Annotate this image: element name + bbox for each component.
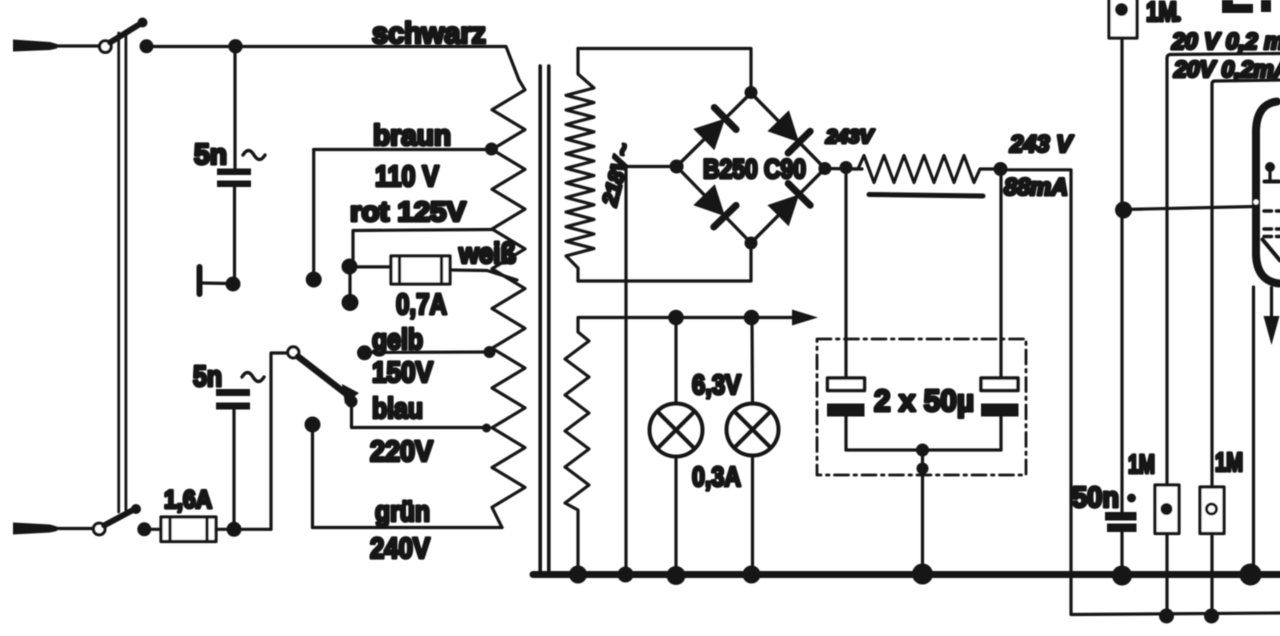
- tube cathode lead to ground: [1252, 287, 1255, 571]
- wire gruen: [313, 526, 503, 529]
- contact 125V rot: [342, 259, 359, 312]
- svg-text:grün: grün: [375, 496, 430, 528]
- svg-text:gelb: gelb: [372, 324, 423, 356]
- label AC tilde: [243, 151, 265, 160]
- terminal: mains plug pin bottom: [13, 523, 57, 535]
- wire: [55, 527, 93, 530]
- junction dot: [228, 39, 242, 53]
- junction dot: [1159, 609, 1174, 624]
- svg-text:243 V: 243 V: [1009, 131, 1074, 158]
- contact 240V gruen: [305, 417, 321, 528]
- wire 20V line B: [1212, 80, 1280, 487]
- capacitor C4 50u: [981, 176, 1019, 450]
- svg-text:1,6A: 1,6A: [164, 486, 212, 514]
- bus junction dot: [569, 566, 587, 584]
- wire HV top to bridge: [578, 49, 751, 89]
- bus junction dot: [743, 566, 761, 584]
- svg-text:1M: 1M: [1128, 449, 1155, 479]
- wire rot tap: [353, 230, 494, 263]
- bus junction dot: [667, 566, 686, 585]
- tube lead with arrow down: [1264, 288, 1280, 346]
- diode D4: [767, 184, 810, 227]
- label AC tilde: [242, 373, 264, 382]
- svg-text:5n: 5n: [193, 361, 222, 393]
- switch linkage (ganged): [119, 31, 126, 512]
- wire 243V rail down and along bottom: [1000, 170, 1280, 615]
- resistor R1 smoothing: [846, 156, 1000, 183]
- svg-text:schwarz: schwarz: [372, 17, 486, 50]
- wire to tube grid: [1123, 207, 1255, 210]
- node DC plus: [818, 162, 831, 175]
- resistor R3 1M: [1155, 485, 1179, 534]
- junction dot: [917, 463, 929, 475]
- label 1M: [1146, 0, 1182, 27]
- ground bus: [533, 571, 1280, 578]
- junction dot: [226, 277, 241, 292]
- junction dot small: [1127, 494, 1136, 503]
- wire braun: [314, 148, 491, 151]
- svg-text:243V: 243V: [825, 127, 874, 148]
- tube cathode diagonal: [1263, 240, 1280, 261]
- wire caps common to ground: [846, 450, 1001, 572]
- wire HV bottom to bridge: [578, 247, 751, 281]
- svg-text:220V: 220V: [370, 436, 434, 468]
- junction dot: [227, 522, 242, 537]
- tube grid dashes: [1264, 211, 1280, 237]
- switch S1a mains switch upper pole: [100, 18, 148, 53]
- terminal: mains plug pin top: [13, 40, 57, 52]
- bus junction dot: [912, 564, 933, 585]
- resistor R4 1M: [1200, 487, 1224, 534]
- transformer T1 HV secondary winding 218V: [566, 49, 594, 282]
- switch S1b mains switch lower pole: [93, 504, 141, 535]
- svg-text:1M: 1M: [1146, 0, 1177, 27]
- capacitor C1 5n upper mains filter: [217, 47, 251, 285]
- enclosure 2x50u dash-dot box: [817, 339, 1026, 475]
- wire 20V line A: [1167, 54, 1280, 486]
- node DC minus: [670, 160, 684, 174]
- node AC bottom: [745, 237, 758, 250]
- svg-text:6,3V: 6,3V: [692, 369, 741, 400]
- wire selector riser: [271, 353, 288, 529]
- diode D2: [767, 110, 810, 153]
- junction dot: [140, 39, 154, 53]
- svg-text:0,7A: 0,7A: [396, 289, 447, 321]
- svg-text:0,3A: 0,3A: [692, 461, 741, 492]
- envelope pin gap: [1253, 199, 1258, 204]
- svg-text:2 x 50µ: 2 x 50µ: [874, 383, 974, 418]
- bar under resistor: [869, 195, 983, 197]
- lamp La1 pilot light: [650, 318, 703, 574]
- contact 150V gelb and wire: [357, 345, 496, 360]
- junction dot: [840, 161, 853, 174]
- transformer T1 primary winding: [492, 80, 525, 528]
- diode D3: [693, 184, 736, 227]
- bus junction dot: [1112, 566, 1132, 586]
- chassis tab: [200, 267, 230, 294]
- wire bridge plus output: [825, 167, 862, 171]
- tube anode connection: [1265, 162, 1280, 182]
- bridge rectifier B250 C90: [677, 93, 825, 243]
- junction dot: [137, 522, 151, 536]
- node AC top: [745, 86, 758, 99]
- svg-text:braun: braun: [373, 120, 451, 152]
- svg-text:weiß: weiß: [458, 238, 516, 270]
- contact 110V braun: [306, 150, 322, 288]
- svg-text:5n: 5n: [194, 139, 227, 171]
- svg-text:50n: 50n: [1072, 482, 1119, 514]
- tap junction dot: [485, 143, 498, 156]
- capacitor C3 50u: [827, 172, 865, 450]
- transformer core: [540, 66, 549, 572]
- svg-text:B250 C90: B250 C90: [703, 154, 806, 184]
- wire 6.3V heater rail: [578, 310, 818, 326]
- bus junction dot: [618, 567, 634, 583]
- wire blau: [352, 402, 492, 433]
- svg-text:150V: 150V: [372, 357, 434, 389]
- junction dot: [916, 444, 929, 457]
- wire: [1210, 534, 1213, 616]
- svg-text:240V: 240V: [370, 533, 431, 565]
- wire: [216, 528, 271, 531]
- svg-text:20 V 0,2 m: 20 V 0,2 m: [1171, 28, 1280, 54]
- capacitor C5 50n: [1105, 512, 1137, 571]
- junction dot: [744, 310, 760, 326]
- resistor R2 1M grid leak (top, cut): [1109, 0, 1137, 512]
- svg-text:blau: blau: [372, 393, 423, 425]
- node 243V: [994, 162, 1008, 176]
- bus junction dot: [1240, 564, 1262, 586]
- fuse F2 0.7A weiss tap: [357, 256, 517, 284]
- wire: [55, 44, 99, 47]
- svg-text:218V~: 218V~: [598, 141, 636, 209]
- junction dot: [668, 310, 684, 326]
- junction dot: [1204, 609, 1219, 624]
- diode D1: [693, 108, 736, 151]
- capacitor C2 5n lower mains filter: [216, 389, 250, 529]
- wire schwarz to transformer: [147, 47, 520, 81]
- svg-text:110 V: 110 V: [375, 161, 440, 193]
- svg-text:rot 125V: rot 125V: [350, 196, 466, 227]
- label EL tube type (cut): [1222, 0, 1271, 13]
- wire bridge minus to ground bus: [626, 167, 677, 572]
- junction dot: [1115, 202, 1132, 219]
- switch S2 voltage selector: [288, 347, 359, 408]
- fuse F1 1.6A: [144, 517, 216, 542]
- svg-text:1M: 1M: [1215, 447, 1243, 477]
- svg-text:20V 0,2mA: 20V 0,2mA: [1173, 56, 1280, 82]
- svg-text:88mA: 88mA: [1004, 174, 1068, 201]
- tube V1 envelope (partial): [1256, 102, 1279, 284]
- lamp La2 pilot light: [727, 318, 779, 574]
- wire: [1165, 534, 1168, 616]
- transformer T1 heater winding 6.3V: [565, 319, 589, 570]
